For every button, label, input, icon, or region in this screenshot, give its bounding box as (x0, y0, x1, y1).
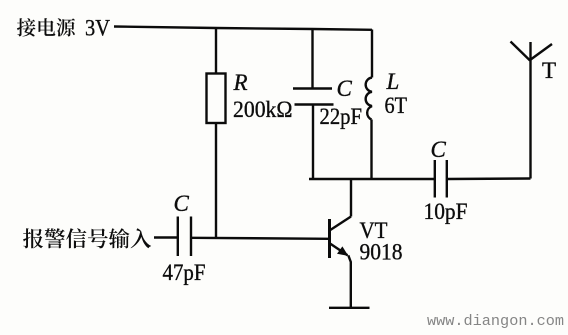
svg-text:200kΩ: 200kΩ (233, 97, 293, 122)
svg-text:9018: 9018 (360, 240, 403, 265)
svg-text:6T: 6T (385, 93, 408, 118)
svg-text:T: T (542, 58, 556, 83)
svg-text:10pF: 10pF (424, 199, 468, 224)
svg-text:3V: 3V (85, 16, 110, 41)
svg-text:22pF: 22pF (320, 104, 363, 129)
svg-text:www.diangon.com: www.diangon.com (427, 314, 564, 330)
svg-text:L: L (386, 69, 400, 94)
svg-text:C: C (337, 76, 353, 101)
svg-text:C: C (174, 191, 190, 216)
svg-text:C: C (431, 137, 447, 162)
svg-text:47pF: 47pF (163, 260, 206, 285)
svg-text:R: R (233, 70, 248, 95)
